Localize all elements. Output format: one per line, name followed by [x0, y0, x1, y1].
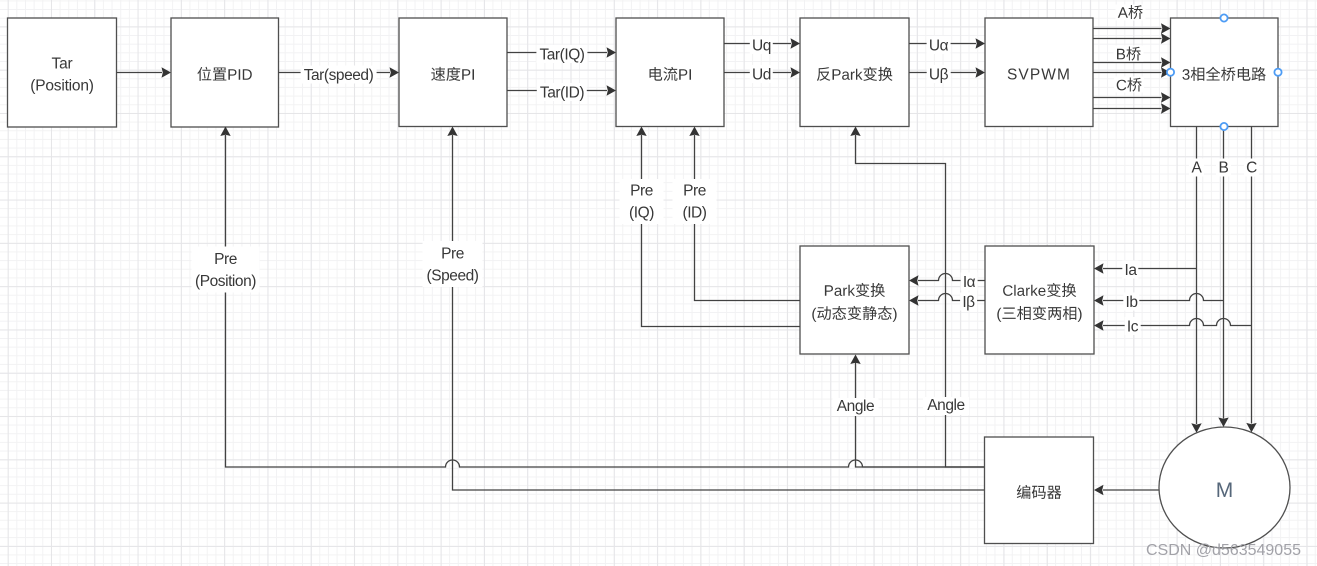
block Park变换(动态变静态) — [800, 246, 909, 354]
wire SVPWM B bridge pwm 1 — [1093, 62, 1162, 64]
svg-text:Pre: Pre — [630, 183, 653, 200]
block 电流PI (current PI) — [616, 18, 724, 127]
wire phase C down to motor — [1251, 127, 1253, 424]
connection handle bottom of bridge — [1220, 123, 1227, 130]
block 反Park变换 (inverse Park transform) — [800, 18, 909, 127]
svg-text:B: B — [1219, 160, 1229, 177]
svg-text:(Speed): (Speed) — [427, 268, 479, 285]
block Tar(Position) input — [8, 18, 117, 127]
wire phase B down to motor — [1223, 127, 1225, 419]
wire Pre(Position) encoder to 位置PID, hops at 855.5 and 452.5 — [226, 135, 985, 467]
svg-text:(IQ): (IQ) — [629, 205, 654, 222]
wire SVPWM C bridge pwm 1 — [1093, 97, 1162, 99]
svg-text:A: A — [1192, 160, 1203, 177]
wire Ibeta Clarke to Park, hop over angle line — [918, 294, 985, 301]
wire phase A down to motor — [1196, 127, 1198, 425]
wire Ialpha Clarke to Park, hop over angle line — [918, 274, 985, 281]
wire SVPWM A bridge pwm 2 — [1093, 38, 1162, 40]
wire Pre(IQ) Park to 电流PI — [642, 135, 801, 327]
svg-text:Angle: Angle — [837, 398, 874, 415]
svg-text:Ic: Ic — [1127, 319, 1139, 336]
block SVPWM — [985, 18, 1093, 127]
svg-text:(Position): (Position) — [195, 273, 256, 290]
svg-text:M: M — [1216, 479, 1234, 502]
block 编码器 (encoder) — [985, 437, 1094, 544]
wire Angle encoder to 反Park (via x=945.5) — [856, 135, 985, 467]
svg-text:Uβ: Uβ — [929, 67, 949, 84]
label C桥 — [1114, 77, 1144, 93]
svg-text:Angle: Angle — [927, 397, 964, 414]
label B — [1216, 159, 1231, 177]
wire Uq 电流PI to 反Park — [724, 43, 791, 45]
svg-text:Pre: Pre — [214, 251, 237, 268]
svg-text:Tar(IQ): Tar(IQ) — [539, 47, 584, 64]
svg-text:Pre: Pre — [683, 183, 706, 200]
wire Pre(Speed) encoder to 速度PI — [453, 135, 985, 490]
motor M — [1159, 427, 1290, 548]
connection handle right of bridge — [1274, 69, 1281, 76]
svg-text:Tar(ID): Tar(ID) — [540, 85, 584, 102]
wire Ia from phase A to Clarke — [1103, 268, 1197, 270]
wire SVPWM A bridge pwm 1 — [1093, 28, 1162, 30]
connection handle left of bridge — [1167, 69, 1174, 76]
svg-text:Tar(speed): Tar(speed) — [304, 67, 374, 84]
wire 位置PID to 速度PI, label Tar(speed) — [279, 72, 391, 74]
wire Ic from phase C to Clarke, hops over A and B — [1103, 319, 1252, 326]
wire SVPWM B bridge pwm 2 — [1093, 72, 1162, 74]
svg-text:Ib: Ib — [1125, 294, 1137, 311]
svg-text:Iβ: Iβ — [962, 294, 975, 311]
block Clarke变换(三相变两相) — [985, 246, 1094, 354]
wire SVPWM C bridge pwm 2 — [1093, 108, 1162, 110]
wire Ib from phase B to Clarke, hop over A — [1103, 294, 1224, 301]
svg-text:Tar: Tar — [52, 56, 73, 73]
wire Ud 电流PI to 反Park — [724, 72, 791, 74]
svg-text:C: C — [1246, 160, 1257, 177]
svg-text:(Position): (Position) — [30, 78, 94, 95]
svg-text:Pre: Pre — [441, 246, 464, 263]
svg-text:CSDN @d563549055: CSDN @d563549055 — [1146, 542, 1301, 559]
label A桥 — [1116, 5, 1146, 21]
connection handle top of bridge — [1220, 14, 1227, 21]
svg-text:Uα: Uα — [929, 38, 949, 55]
wire Pre(ID) Park to 电流PI — [695, 135, 801, 301]
block 3相全桥电路 (3-phase full bridge) — [1171, 18, 1279, 127]
wire Ubeta 反Park to SVPWM — [909, 72, 976, 74]
label C — [1244, 159, 1259, 177]
wire Tar(ID) 速度PI to 电流PI — [507, 90, 607, 92]
svg-text:Ud: Ud — [752, 67, 771, 84]
svg-text:(ID): (ID) — [682, 205, 706, 222]
svg-text:Iα: Iα — [963, 274, 976, 291]
block 速度PI (speed PI) — [399, 18, 507, 127]
svg-text:SVPWM: SVPWM — [1007, 67, 1071, 84]
label A — [1189, 159, 1204, 177]
block 位置PID (position PID) — [171, 18, 279, 127]
wire Angle encoder to Park (x=855.5) — [856, 363, 985, 468]
svg-text:Uq: Uq — [752, 38, 771, 55]
label B桥 — [1114, 46, 1144, 62]
wire Tar to 位置PID — [117, 72, 163, 74]
svg-text:Ia: Ia — [1124, 262, 1137, 279]
wire Tar(IQ) 速度PI to 电流PI — [507, 52, 607, 54]
wire motor to 编码器 — [1103, 489, 1160, 491]
wire Ualpha 反Park to SVPWM — [909, 43, 976, 45]
